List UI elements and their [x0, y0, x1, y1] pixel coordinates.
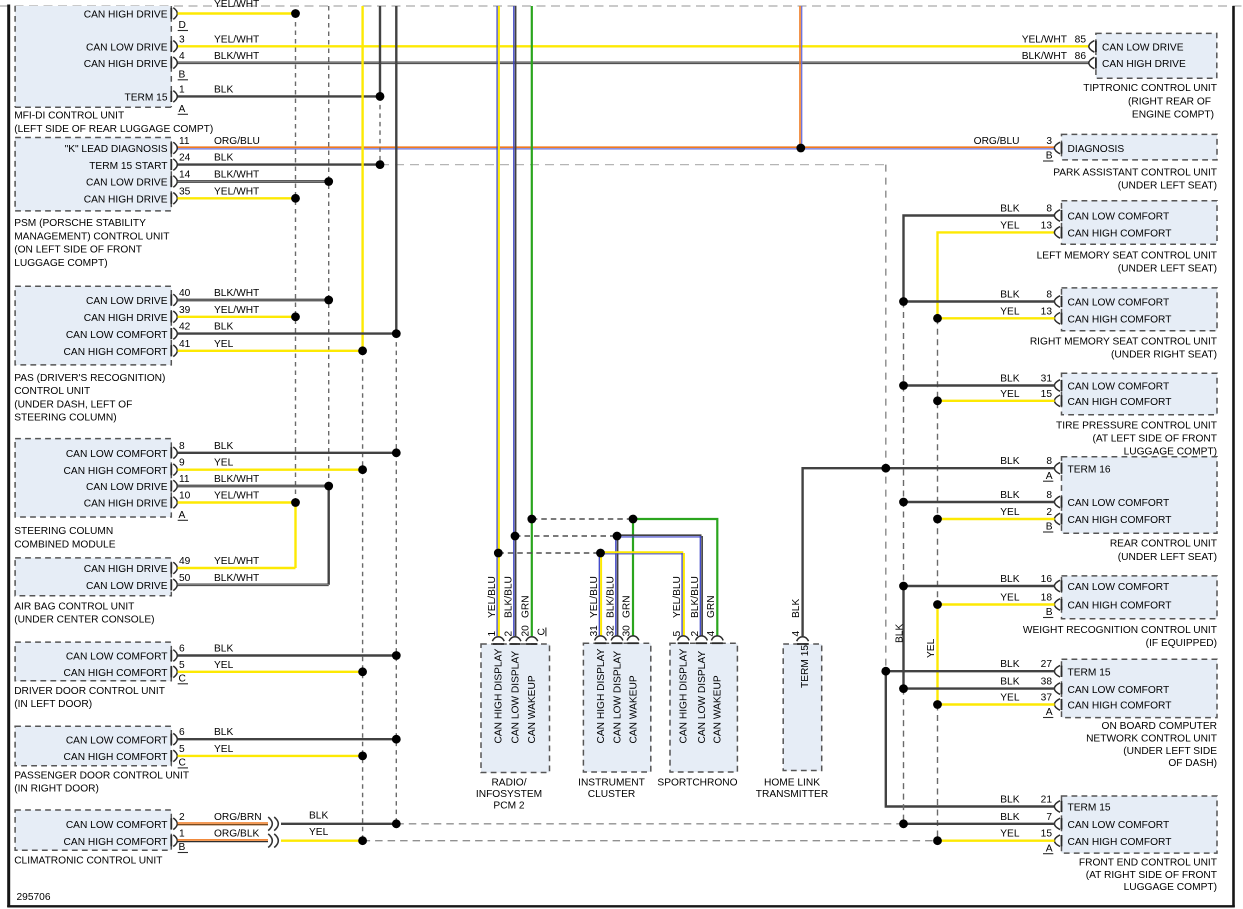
svg-text:YEL/WHT: YEL/WHT	[214, 556, 259, 567]
svg-text:ORG/BLU: ORG/BLU	[214, 136, 260, 147]
svg-text:B: B	[1046, 607, 1053, 618]
svg-text:BLK: BLK	[894, 624, 905, 643]
svg-text:COMBINED MODULE: COMBINED MODULE	[14, 539, 116, 550]
junction high comfort right trunk / obc pin37	[933, 700, 942, 709]
instrument cluster box	[583, 643, 650, 772]
svg-text:FRONT END CONTROL UNIT: FRONT END CONTROL UNIT	[1079, 858, 1217, 869]
rear control unit box	[1062, 457, 1218, 534]
wire YEL obc pin37	[938, 703, 1055, 705]
inline connector on climatronic pin1 wire	[268, 834, 272, 848]
wire BLK climatronic pin2 to comfort trunk	[281, 823, 396, 825]
junction term15 trunk / obc pin27 row	[881, 667, 890, 676]
svg-text:CAN LOW DISPLAY: CAN LOW DISPLAY	[697, 651, 708, 744]
svg-text:ORG/BLU: ORG/BLU	[974, 136, 1020, 147]
junction steering pin8 / low comfort trunk	[392, 448, 401, 457]
svg-text:YEL: YEL	[214, 458, 234, 469]
wire CAN HIGH COMFORT YEL trunk x=362.6 solid top	[361, 6, 363, 351]
PSM control unit box	[15, 138, 171, 211]
svg-text:2: 2	[504, 631, 515, 637]
svg-text:TERM 15: TERM 15	[1068, 803, 1111, 814]
svg-text:BLK/WHT: BLK/WHT	[1022, 51, 1067, 62]
svg-text:42: 42	[179, 322, 191, 333]
junction PSM pin14 / low drive trunk	[324, 177, 333, 186]
MFI-DI pin D CAN HIGH DRIVE	[170, 8, 172, 19]
front end control unit box	[1062, 796, 1218, 853]
instrument cluster pin 31 CAN HIGH DISPLAY	[595, 642, 606, 644]
svg-text:CAN LOW COMFORT: CAN LOW COMFORT	[66, 449, 168, 460]
sportchrono pin 5 CAN HIGH DISPLAY	[678, 642, 689, 644]
svg-text:CAN LOW DRIVE: CAN LOW DRIVE	[86, 178, 168, 189]
svg-text:ENGINE COMPT): ENGINE COMPT)	[1132, 110, 1214, 121]
svg-text:BLK/BLU: BLK/BLU	[504, 576, 515, 618]
svg-text:15: 15	[1041, 829, 1053, 840]
svg-text:TERM 15: TERM 15	[124, 93, 167, 104]
svg-text:1: 1	[179, 84, 185, 95]
junction steering pin9 / high comfort trunk	[358, 465, 367, 474]
junction MFI top pin / high drive trunk	[291, 9, 300, 18]
svg-text:(AT LEFT SIDE OF FRONT: (AT LEFT SIDE OF FRONT	[1092, 434, 1217, 445]
wire CAN HIGH COMFORT YEL right trunk solid segment	[936, 605, 938, 705]
svg-text:(UNDER LEFT SEAT): (UNDER LEFT SEAT)	[1118, 264, 1217, 275]
svg-text:8: 8	[1046, 490, 1052, 501]
PAS pin 39 CAN HIGH DRIVE	[170, 311, 172, 322]
svg-text:4: 4	[791, 631, 802, 637]
junction climatronic pin1 / high comfort trunk	[358, 836, 367, 845]
on board computer network control unit box	[1062, 659, 1218, 717]
wire BLK rear control TERM16	[886, 467, 1055, 469]
PSM pin 11 K LEAD DIAGNOSIS	[170, 142, 172, 153]
svg-text:CAN HIGH COMFORT: CAN HIGH COMFORT	[1068, 397, 1172, 408]
inline connector on climatronic pin2 wire	[268, 817, 272, 831]
junction passenger door pin6 / low comfort trunk	[392, 735, 401, 744]
svg-text:LUGGAGE COMPT): LUGGAGE COMPT)	[14, 258, 107, 269]
wire CAN LOW COMFORT BLK right trunk solid segment	[902, 586, 904, 689]
on board computer pin 27 TERM 15	[1061, 666, 1063, 677]
svg-text:11: 11	[179, 136, 190, 147]
svg-text:AIR BAG CONTROL UNIT: AIR BAG CONTROL UNIT	[14, 602, 134, 613]
climatronic control unit box	[15, 810, 171, 850]
on board computer pin 38 CAN LOW COMFORT	[1061, 683, 1063, 694]
svg-text:YEL/WHT: YEL/WHT	[214, 491, 259, 502]
svg-text:ON BOARD COMPUTER: ON BOARD COMPUTER	[1102, 721, 1217, 732]
svg-text:TERM 16: TERM 16	[1068, 464, 1111, 475]
svg-text:295706: 295706	[17, 892, 51, 903]
svg-text:TIRE PRESSURE CONTROL UNIT: TIRE PRESSURE CONTROL UNIT	[1056, 420, 1217, 431]
svg-text:YEL/WHT: YEL/WHT	[214, 0, 259, 10]
junction yel/blu trunk / display jumper	[494, 549, 503, 558]
wire BLK/BLU instrument cluster pin32	[615, 536, 617, 636]
PAS pin 42 CAN LOW COMFORT	[170, 328, 172, 339]
junction low comfort right trunk / weight pin16	[899, 582, 908, 591]
svg-text:YEL/BLU: YEL/BLU	[672, 576, 683, 618]
junction steering pin10 / high drive trunk	[291, 498, 300, 507]
park assistant pin 3 DIAGNOSIS	[1061, 142, 1063, 153]
left memory seat pin 8 CAN LOW COMFORT	[1061, 210, 1063, 221]
junction driver door pin6 / low comfort trunk	[392, 651, 401, 660]
rear control pin 8 TERM 16	[1061, 463, 1063, 474]
svg-text:CAN LOW COMFORT: CAN LOW COMFORT	[1068, 582, 1170, 593]
svg-text:CAN HIGH DISPLAY: CAN HIGH DISPLAY	[596, 648, 607, 743]
junction high comfort right trunk / front end pin15	[933, 836, 942, 845]
wire TERM15 BLK right trunk solid to front end	[886, 671, 1055, 806]
tiptronic pin 86 CAN HIGH DRIVE	[1095, 57, 1097, 68]
PAS pin 41 CAN HIGH COMFORT	[170, 345, 172, 356]
svg-text:BLK: BLK	[214, 153, 233, 164]
svg-text:CAN LOW DRIVE: CAN LOW DRIVE	[86, 482, 168, 493]
junction PAS pin41 / high comfort trunk	[358, 346, 367, 355]
svg-text:STEERING COLUMN: STEERING COLUMN	[14, 526, 113, 537]
svg-text:YEL: YEL	[926, 638, 937, 658]
wire BLK rear control pin8	[904, 501, 1055, 503]
wire BLK weight recognition pin16	[904, 585, 1055, 587]
svg-text:STEERING COLUMN): STEERING COLUMN)	[14, 413, 116, 424]
svg-text:CONTROL UNIT: CONTROL UNIT	[14, 386, 90, 397]
svg-text:1: 1	[179, 829, 185, 840]
svg-text:GRN: GRN	[706, 595, 717, 618]
steering pin 8 CAN LOW COMFORT	[170, 447, 172, 458]
svg-text:GRN: GRN	[520, 595, 531, 618]
svg-text:CAN LOW COMFORT: CAN LOW COMFORT	[66, 735, 168, 746]
svg-text:A: A	[1046, 471, 1053, 482]
svg-text:BLK: BLK	[791, 599, 802, 618]
sportchrono pin 4 CAN WAKEUP	[712, 642, 723, 644]
instrument cluster pin 32 CAN LOW DISPLAY	[611, 642, 622, 644]
svg-text:INFOSYSTEM: INFOSYSTEM	[476, 789, 542, 800]
sportchrono pin 2 CAN LOW DISPLAY	[696, 642, 707, 644]
radio infosystem PCM2 box	[481, 644, 550, 773]
svg-text:16: 16	[1041, 574, 1053, 585]
svg-text:CAN HIGH COMFORT: CAN HIGH COMFORT	[1068, 315, 1172, 326]
instrument cluster pin 30 CAN WAKEUP	[627, 642, 638, 644]
svg-text:39: 39	[179, 305, 191, 316]
svg-text:(UNDER RIGHT SEAT): (UNDER RIGHT SEAT)	[1111, 350, 1217, 361]
svg-text:CAN HIGH DRIVE: CAN HIGH DRIVE	[84, 499, 168, 510]
wire YEL/WHT PSM pin35 to trunk	[178, 197, 296, 199]
svg-text:CAN HIGH COMFORT: CAN HIGH COMFORT	[1068, 515, 1172, 526]
svg-text:CAN LOW DISPLAY: CAN LOW DISPLAY	[510, 651, 521, 744]
svg-text:BLK: BLK	[1000, 204, 1019, 215]
junction instrument cluster pin31 wire	[596, 549, 605, 558]
svg-text:CAN LOW COMFORT: CAN LOW COMFORT	[1068, 212, 1170, 223]
wire GRN to sportchrono pin4	[633, 519, 717, 636]
junction MFI pin1 / term15 trunk	[376, 92, 385, 101]
passenger door control unit box	[15, 726, 171, 766]
svg-text:CAN HIGH COMFORT: CAN HIGH COMFORT	[64, 752, 168, 763]
svg-text:CAN HIGH COMFORT: CAN HIGH COMFORT	[64, 668, 168, 679]
svg-text:27: 27	[1041, 659, 1053, 670]
park assistant diagnosis box	[1062, 134, 1218, 160]
wire YEL rear control pin2	[938, 518, 1055, 520]
svg-text:CAN HIGH DISPLAY: CAN HIGH DISPLAY	[679, 648, 690, 743]
svg-text:B: B	[1046, 151, 1053, 162]
air bag control unit box	[15, 558, 171, 596]
right memory seat pin 13 CAN HIGH COMFORT	[1061, 313, 1063, 324]
node TERM 15 trunk (dashed) x=380	[379, 96, 381, 164]
svg-text:13: 13	[1041, 220, 1053, 231]
climatronic pin 1 CAN HIGH COMFORT	[170, 835, 172, 846]
page top dashed border	[0, 5, 1243, 7]
svg-text:BLK: BLK	[1000, 456, 1019, 467]
wire BLK passenger door pin6 to trunk	[178, 738, 397, 740]
svg-text:2: 2	[179, 812, 185, 823]
svg-text:A: A	[1046, 707, 1053, 718]
wire CAN LOW COMFORT BLK right trunk top corner	[904, 216, 1055, 302]
wire BLK/WHT PSM pin14 to trunk	[178, 180, 329, 183]
svg-text:PSM (PORSCHE STABILITY: PSM (PORSCHE STABILITY	[14, 218, 146, 229]
node TERM15 right trunk dashed x=885.8	[885, 165, 887, 672]
svg-text:8: 8	[1046, 456, 1052, 467]
svg-text:PAS (DRIVER'S RECOGNITION): PAS (DRIVER'S RECOGNITION)	[14, 373, 165, 384]
front end pin 7 CAN LOW COMFORT	[1061, 818, 1063, 829]
air bag pin 50 CAN LOW DRIVE	[170, 579, 172, 590]
svg-text:CAN HIGH DRIVE: CAN HIGH DRIVE	[1102, 59, 1186, 70]
driver door pin 6 CAN LOW COMFORT	[170, 650, 172, 661]
MFI-DI pin 1 TERM 15	[170, 91, 172, 102]
MFI-DI control unit box	[15, 6, 171, 107]
driver door pin 5 CAN HIGH COMFORT	[170, 666, 172, 677]
svg-text:CAN LOW COMFORT: CAN LOW COMFORT	[66, 820, 168, 831]
junction passenger door pin5 / high comfort trunk	[358, 752, 367, 761]
junction instrument cluster pin32 wire	[613, 532, 622, 541]
svg-text:86: 86	[1075, 51, 1087, 62]
svg-text:20: 20	[520, 625, 531, 637]
left memory seat pin 13 CAN HIGH COMFORT	[1061, 227, 1063, 238]
svg-text:3: 3	[179, 34, 185, 45]
node CAN HIGH COMFORT trunk (dashed) x=362.6	[362, 351, 364, 841]
svg-text:(UNDER DASH, LEFT OF: (UNDER DASH, LEFT OF	[14, 399, 132, 410]
wire TERM 15 BLK trunk x=380 solid top	[379, 6, 381, 96]
svg-text:49: 49	[179, 556, 191, 567]
svg-text:DIAGNOSIS: DIAGNOSIS	[1068, 144, 1125, 155]
svg-text:31: 31	[1041, 374, 1053, 385]
svg-text:BLK: BLK	[1000, 290, 1019, 301]
driver door control unit box	[15, 642, 171, 681]
svg-text:BLK: BLK	[1000, 659, 1019, 670]
svg-text:B: B	[179, 70, 186, 81]
svg-text:YEL: YEL	[1000, 593, 1020, 604]
home link pin 4 TERM 15	[797, 643, 808, 645]
wire YEL/WHT MFI top pin to drive trunk	[178, 12, 296, 14]
air bag pin 49 CAN HIGH DRIVE	[170, 562, 172, 573]
front end pin 15 CAN HIGH COMFORT	[1061, 835, 1063, 846]
svg-text:LEFT MEMORY SEAT CONTROL UNIT: LEFT MEMORY SEAT CONTROL UNIT	[1037, 250, 1217, 261]
svg-text:GRN: GRN	[622, 595, 633, 618]
svg-text:14: 14	[179, 170, 191, 181]
wire CAN LOW COMFORT BLK trunk x=396.3 solid top	[395, 6, 397, 334]
svg-text:BLK: BLK	[214, 84, 233, 95]
svg-text:1: 1	[487, 631, 498, 637]
wire YEL/BLU instrument cluster pin31	[598, 553, 600, 636]
svg-text:15: 15	[1041, 389, 1053, 400]
svg-text:CAN HIGH COMFORT: CAN HIGH COMFORT	[64, 466, 168, 477]
wire YEL front end pin15	[938, 840, 1055, 842]
wire BLK front end pin7	[904, 823, 1055, 825]
svg-text:CAN LOW COMFORT: CAN LOW COMFORT	[1068, 382, 1170, 393]
svg-text:"K" LEAD DIAGNOSIS: "K" LEAD DIAGNOSIS	[65, 144, 168, 155]
svg-text:8: 8	[179, 441, 185, 452]
svg-text:BLK: BLK	[214, 322, 233, 333]
svg-text:CAN LOW DISPLAY: CAN LOW DISPLAY	[612, 651, 623, 744]
radio pin 2 CAN LOW DISPLAY	[509, 643, 520, 645]
svg-text:YEL: YEL	[1000, 389, 1020, 400]
wire TERM 15 START BLK PSM pin24 to trunk	[178, 163, 381, 165]
svg-text:TERM 15 START: TERM 15 START	[89, 161, 167, 172]
svg-text:50: 50	[179, 573, 191, 584]
svg-text:BLK: BLK	[1000, 795, 1019, 806]
svg-text:CAN WAKEUP: CAN WAKEUP	[628, 675, 639, 743]
wire BLK/WHT steering pin11 to trunk	[178, 485, 329, 488]
weight recognition pin 18 CAN HIGH COMFORT	[1061, 599, 1063, 610]
home link transmitter box	[783, 644, 822, 771]
wire BLK obc TERM15 pin27	[886, 670, 1055, 672]
svg-text:BLK: BLK	[214, 727, 233, 738]
svg-text:HOME LINK: HOME LINK	[764, 778, 820, 789]
node CAN HIGH COMFORT right trunk dashed x=937.5	[937, 318, 939, 604]
svg-text:A: A	[1046, 843, 1053, 854]
wire YEL PAS pin41 to trunk	[178, 350, 363, 352]
junction high comfort right trunk / right memory pin13	[933, 314, 942, 323]
wire CAN LOW DISPLAY BLK/BLU trunk x=515	[513, 6, 515, 636]
right memory seat control unit box	[1062, 288, 1218, 331]
svg-text:DRIVER DOOR CONTROL UNIT: DRIVER DOOR CONTROL UNIT	[14, 686, 165, 697]
svg-text:BLK/WHT: BLK/WHT	[214, 170, 259, 181]
svg-text:BLK/WHT: BLK/WHT	[214, 474, 259, 485]
svg-text:BLK/WHT: BLK/WHT	[214, 573, 259, 584]
sportchrono box	[670, 643, 737, 772]
svg-text:A: A	[179, 510, 186, 521]
svg-text:BLK: BLK	[214, 644, 233, 655]
svg-text:CAN HIGH COMFORT: CAN HIGH COMFORT	[64, 347, 168, 358]
node CAN LOW DRIVE trunk (dashed) x=328.7	[328, 6, 330, 486]
svg-text:CAN HIGH COMFORT: CAN HIGH COMFORT	[64, 837, 168, 848]
radio pin 20 CAN WAKEUP	[526, 643, 537, 645]
junction high comfort right trunk / weight pin18	[933, 600, 942, 609]
svg-text:CAN LOW COMFORT: CAN LOW COMFORT	[1068, 685, 1170, 696]
svg-text:7: 7	[1046, 812, 1052, 823]
node CAN LOW COMFORT right trunk dashed x=903.5	[903, 302, 905, 587]
PAS pin 40 CAN LOW DRIVE	[170, 294, 172, 305]
svg-text:PASSENGER DOOR CONTROL UNIT: PASSENGER DOOR CONTROL UNIT	[14, 771, 189, 782]
svg-text:31: 31	[589, 625, 600, 637]
junction instrument cluster pin30 wire	[629, 515, 638, 524]
wire TERM 15 BLK MFI pin1 to trunk	[178, 95, 381, 97]
svg-text:BLK: BLK	[214, 441, 233, 452]
svg-text:OF DASH): OF DASH)	[1168, 758, 1217, 769]
svg-text:BLK: BLK	[1000, 812, 1019, 823]
PSM pin 35 CAN HIGH DRIVE	[170, 193, 172, 204]
wire ORG/BRN climatronic pin2	[178, 822, 269, 824]
svg-text:A: A	[179, 104, 186, 115]
wire BLK right memory pin8	[904, 300, 1055, 302]
svg-text:40: 40	[179, 288, 191, 299]
wire YEL climatronic pin1 to comfort trunk	[281, 840, 363, 842]
svg-text:CLUSTER: CLUSTER	[588, 789, 636, 800]
tiptronic control unit box	[1096, 33, 1217, 78]
svg-text:8: 8	[1046, 290, 1052, 301]
wire YEL driver door pin5 to trunk	[178, 671, 363, 673]
svg-text:CAN LOW COMFORT: CAN LOW COMFORT	[1068, 298, 1170, 309]
svg-text:YEL: YEL	[1000, 220, 1020, 231]
svg-text:(UNDER LEFT SEAT): (UNDER LEFT SEAT)	[1118, 181, 1217, 192]
svg-text:ORG/BLK: ORG/BLK	[214, 829, 259, 840]
svg-text:TIPTRONIC CONTROL UNIT: TIPTRONIC CONTROL UNIT	[1083, 83, 1217, 94]
junction low comfort right trunk / obc pin38	[899, 684, 908, 693]
wire YEL right memory pin13	[938, 317, 1055, 319]
svg-text:CAN WAKEUP: CAN WAKEUP	[527, 675, 538, 743]
svg-text:TERM 15: TERM 15	[1068, 667, 1111, 678]
svg-text:YEL/WHT: YEL/WHT	[1022, 34, 1067, 45]
svg-text:38: 38	[1041, 677, 1053, 688]
svg-text:CAN HIGH COMFORT: CAN HIGH COMFORT	[1068, 601, 1172, 612]
wire dashed CAN HIGH COMFORT jumper to right trunk y=840.7	[363, 840, 938, 842]
junction term15 trunk / rear TERM16 row	[881, 464, 890, 473]
svg-text:REAR CONTROL UNIT: REAR CONTROL UNIT	[1110, 539, 1217, 550]
steering pin 11 CAN LOW DRIVE	[170, 480, 172, 491]
svg-text:11: 11	[179, 474, 190, 485]
svg-text:TERM 15: TERM 15	[800, 645, 811, 688]
svg-text:CAN HIGH COMFORT: CAN HIGH COMFORT	[1068, 837, 1172, 848]
svg-text:C: C	[179, 674, 186, 685]
wire YEL tire pressure pin15	[938, 400, 1055, 402]
svg-text:RADIO/: RADIO/	[491, 778, 526, 789]
svg-text:TRANSMITTER: TRANSMITTER	[756, 789, 828, 800]
junction PAS pin39 / high drive trunk	[291, 312, 300, 321]
svg-text:CAN LOW DRIVE: CAN LOW DRIVE	[1102, 43, 1184, 54]
svg-text:C: C	[179, 758, 186, 769]
svg-text:CAN HIGH DRIVE: CAN HIGH DRIVE	[84, 59, 168, 70]
svg-text:CAN LOW DRIVE: CAN LOW DRIVE	[86, 43, 168, 54]
svg-text:13: 13	[1041, 306, 1053, 317]
svg-text:YEL: YEL	[214, 660, 234, 671]
junction high comfort right trunk / rear pin2	[933, 515, 942, 524]
svg-text:37: 37	[1041, 693, 1053, 704]
svg-text:YEL: YEL	[1000, 829, 1020, 840]
junction low comfort right trunk / front end pin7	[899, 819, 908, 828]
wire BLK/BLU to sportchrono pin2	[617, 534, 702, 536]
PAS control unit box	[15, 286, 171, 365]
svg-text:SPORTCHRONO: SPORTCHRONO	[657, 778, 737, 789]
junction driver door pin5 / high comfort trunk	[358, 667, 367, 676]
wire YEL/WHT PAS pin39 to trunk	[178, 316, 296, 318]
svg-text:CAN LOW COMFORT: CAN LOW COMFORT	[66, 330, 168, 341]
svg-text:21: 21	[1041, 795, 1053, 806]
wire CAN HIGH DISPLAY YEL/BLU trunk x=498.3	[496, 6, 498, 636]
junction blk/blu trunk / display jumper	[511, 532, 520, 541]
wire dashed jumper CAN HIGH DISPLAY y=553	[498, 552, 600, 554]
wire YEL weight recognition pin18	[938, 603, 1055, 605]
svg-text:YEL: YEL	[309, 827, 329, 838]
svg-text:2: 2	[1046, 507, 1052, 518]
wire GRN instrument cluster pin30	[632, 519, 634, 636]
wire BLK obc pin38	[904, 687, 1055, 689]
rear control pin 2 CAN HIGH COMFORT	[1061, 513, 1063, 524]
junction low comfort right trunk / rear pin8	[899, 498, 908, 507]
junction org/blu vertical / diagnosis wire	[796, 144, 805, 153]
radio pin 1 CAN HIGH DISPLAY	[493, 643, 504, 645]
wire BLK tire pressure pin31	[904, 384, 1055, 386]
svg-text:5: 5	[672, 631, 683, 637]
svg-text:ORG/BRN: ORG/BRN	[214, 812, 262, 823]
svg-text:YEL: YEL	[1000, 306, 1020, 317]
page right border	[1232, 6, 1235, 907]
svg-text:CAN LOW DRIVE: CAN LOW DRIVE	[86, 296, 168, 307]
junction grn trunk / display jumper	[527, 515, 536, 524]
wire ORG/BLK climatronic pin1	[178, 839, 269, 841]
svg-text:(IN RIGHT DOOR): (IN RIGHT DOOR)	[14, 784, 99, 795]
svg-text:INSTRUMENT: INSTRUMENT	[578, 778, 645, 789]
node CAN LOW COMFORT trunk (dashed) x=396.3	[395, 334, 397, 824]
climatronic pin 2 CAN LOW COMFORT	[170, 818, 172, 829]
